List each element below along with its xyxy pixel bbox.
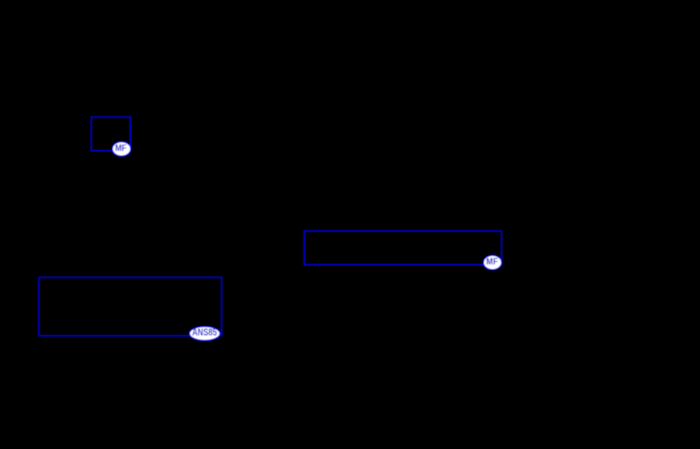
annotation box 3 (large rectangle) xyxy=(39,277,222,335)
svg-text:MF: MF xyxy=(115,143,127,153)
annotation box 2 (wide rectangle) xyxy=(304,231,501,265)
author stamp MF (box 1) xyxy=(112,141,131,156)
author stamp ANS85 (box 3) xyxy=(189,326,220,341)
annotation box 1 (small square) xyxy=(91,117,130,151)
svg-text:MF: MF xyxy=(486,256,498,266)
author stamp MF (box 2) xyxy=(483,255,502,270)
svg-text:ANS85: ANS85 xyxy=(192,328,217,339)
